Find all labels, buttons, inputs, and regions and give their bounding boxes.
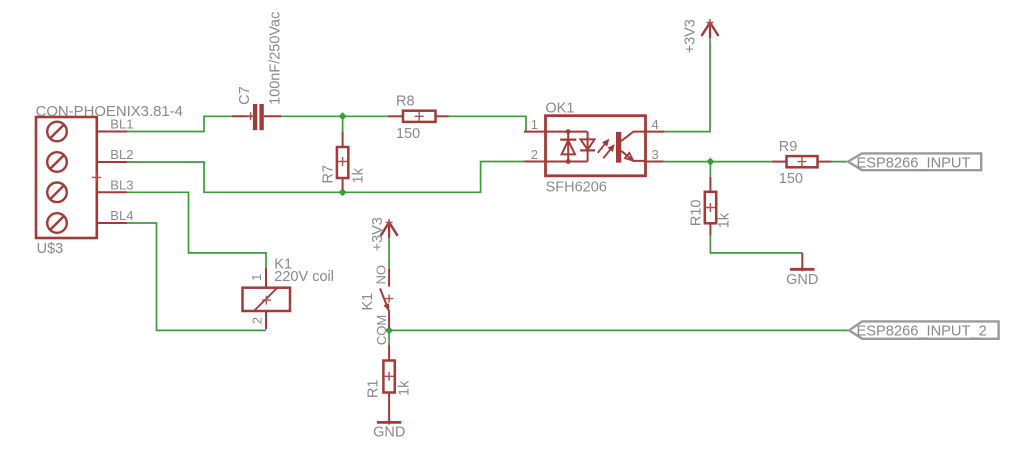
svg-text:1k: 1k	[717, 212, 733, 228]
svg-text:3: 3	[652, 147, 659, 162]
svg-text:+3V3: +3V3	[370, 217, 386, 251]
svg-text:BL4: BL4	[110, 208, 133, 223]
svg-text:U$3: U$3	[37, 241, 64, 257]
svg-text:1: 1	[249, 274, 264, 281]
svg-text:1k: 1k	[350, 167, 366, 183]
svg-text:BL1: BL1	[110, 117, 133, 132]
svg-text:C7: C7	[237, 86, 253, 105]
svg-text:150: 150	[396, 126, 420, 142]
svg-text:150: 150	[779, 171, 803, 187]
svg-text:CON-PHOENIX3.81-4: CON-PHOENIX3.81-4	[36, 104, 183, 120]
svg-text:R9: R9	[779, 139, 798, 155]
svg-text:ESP8266_INPUT: ESP8266_INPUT	[857, 155, 971, 171]
svg-text:4: 4	[652, 117, 659, 132]
svg-text:SFH6206: SFH6206	[546, 179, 607, 195]
svg-text:+3V3: +3V3	[683, 19, 699, 53]
svg-text:1: 1	[531, 117, 538, 132]
svg-text:OK1: OK1	[545, 100, 574, 116]
svg-text:BL3: BL3	[110, 177, 133, 192]
svg-text:R8: R8	[396, 94, 415, 110]
svg-text:100nF/250Vac: 100nF/250Vac	[268, 12, 284, 105]
svg-text:GND: GND	[786, 272, 818, 288]
svg-text:R7: R7	[321, 165, 337, 184]
svg-text:GND: GND	[373, 425, 405, 441]
svg-text:1k: 1k	[396, 380, 412, 396]
svg-text:BL2: BL2	[110, 147, 133, 162]
svg-text:COM: COM	[374, 315, 389, 345]
svg-text:NO: NO	[374, 265, 389, 285]
svg-text:2: 2	[250, 317, 265, 324]
svg-text:220V coil: 220V coil	[274, 269, 334, 285]
svg-text:ESP8266_INPUT_2: ESP8266_INPUT_2	[857, 324, 987, 340]
svg-text:R1: R1	[366, 379, 382, 398]
svg-text:K1: K1	[360, 293, 376, 311]
svg-text:R10: R10	[688, 199, 704, 226]
svg-text:2: 2	[531, 147, 538, 162]
